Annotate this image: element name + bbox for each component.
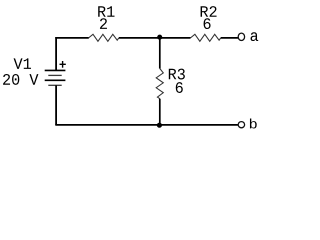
label b xyxy=(250,119,257,129)
label V1 xyxy=(14,58,31,69)
plus sign of V1 xyxy=(60,63,66,65)
wire bottom horizontal xyxy=(55,124,238,126)
battery V1 plate 1 long xyxy=(45,69,66,71)
wire left vertical lower (battery to bottom wire) xyxy=(55,85,57,125)
wire mid vertical lower (R3 to bottom wire) xyxy=(159,99,161,125)
battery V1 plate 2 short xyxy=(48,74,61,76)
junction node dot top xyxy=(157,35,162,40)
resistor R1 xyxy=(89,34,119,41)
resistor R2 xyxy=(191,34,221,41)
wire mid vertical upper (node to R3) xyxy=(159,38,161,69)
label R2 xyxy=(201,6,217,17)
wire left vertical upper (top wire to battery) xyxy=(55,37,57,70)
battery V1 plate 4 short xyxy=(48,84,61,86)
wire top-right segment to terminal a xyxy=(221,37,238,39)
battery V1 plate 3 long xyxy=(45,79,66,81)
label a xyxy=(251,32,259,41)
terminal a circle xyxy=(238,33,244,40)
value 20 V xyxy=(3,74,38,85)
value 6 (R2) xyxy=(204,18,211,29)
wire mid horizontal segment (R1 to R2 through node) xyxy=(119,37,191,39)
value 2 (R1) xyxy=(100,18,107,29)
value 6 (R3) xyxy=(176,82,183,93)
label R3 xyxy=(169,69,185,80)
junction node dot bottom xyxy=(157,123,162,128)
resistor R3 xyxy=(156,69,163,99)
label R1 xyxy=(98,6,114,17)
wire top-left horizontal segment xyxy=(55,37,89,39)
terminal b circle xyxy=(238,122,244,128)
